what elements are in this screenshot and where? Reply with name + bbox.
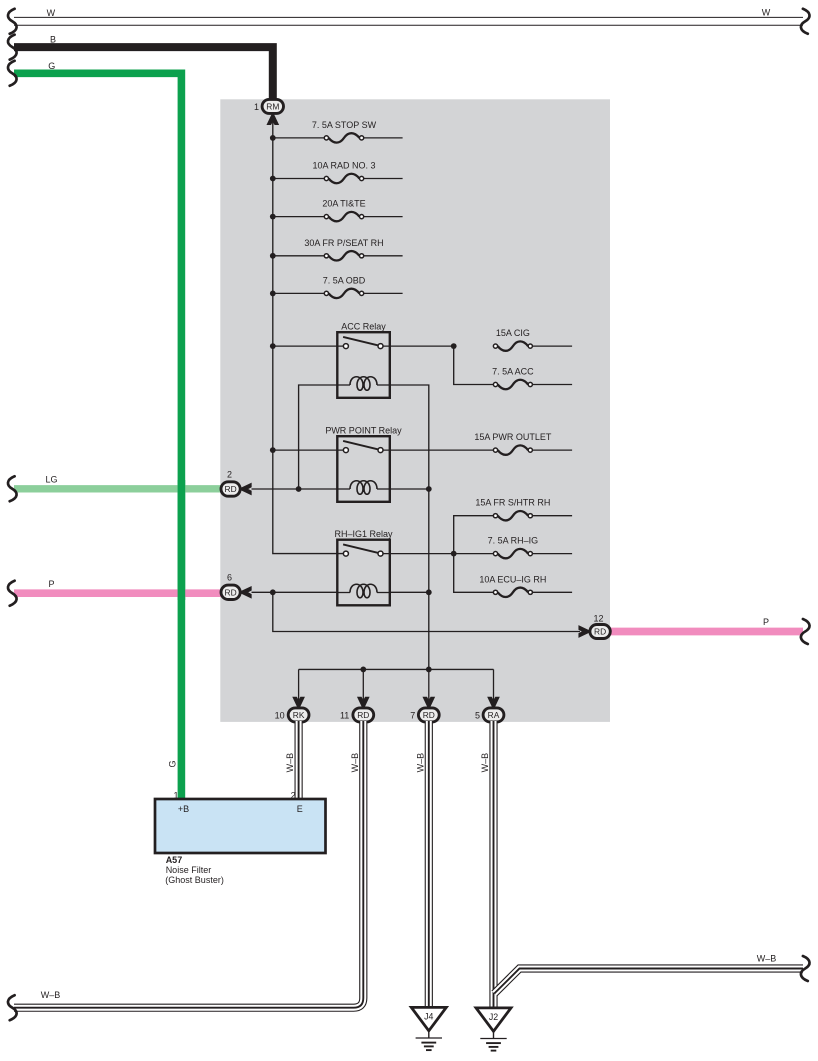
break symbol right of wire W-B bbox=[801, 956, 810, 981]
svg-text:11: 11 bbox=[340, 710, 349, 720]
svg-text:5: 5 bbox=[475, 710, 480, 720]
svg-text:RD: RD bbox=[225, 484, 237, 494]
arrow into connector 10 bbox=[294, 698, 304, 709]
svg-text:W–B: W–B bbox=[41, 990, 61, 1000]
ground J2 bbox=[476, 1008, 511, 1031]
junction dot output bus at feeder bbox=[426, 667, 432, 673]
wire G crossing over LG and P bbox=[178, 480, 186, 600]
svg-text:RD: RD bbox=[225, 587, 237, 597]
ground J4 bbox=[411, 1007, 446, 1030]
svg-text:Noise Filter: Noise Filter bbox=[166, 865, 212, 875]
svg-text:G: G bbox=[168, 760, 178, 767]
connector 10 RK bbox=[288, 708, 309, 722]
svg-text:W–B: W–B bbox=[757, 954, 777, 964]
svg-text:10A RAD NO. 3: 10A RAD NO. 3 bbox=[312, 161, 375, 171]
noise filter A57 box bbox=[155, 799, 326, 853]
svg-text:10A ECU–IG RH: 10A ECU–IG RH bbox=[479, 574, 546, 584]
wire: connector 2 row to PWR POINT coil bbox=[252, 488, 338, 490]
wire W (white, top horizontal) bbox=[14, 17, 803, 26]
svg-text:6: 6 bbox=[227, 573, 232, 583]
svg-text:W: W bbox=[47, 8, 56, 18]
arrow into connector 1 bbox=[268, 114, 278, 125]
wire: drop to connector 5 bbox=[493, 669, 495, 700]
wire: main bus from connector 1 down, turns into RH-IG1 relay switch bbox=[273, 117, 346, 554]
svg-text:30A FR P/SEAT RH: 30A FR P/SEAT RH bbox=[304, 238, 383, 248]
break symbol left of bottom wire W-B bbox=[8, 995, 17, 1020]
junction dot feeder at connector 11 drop bbox=[360, 667, 366, 673]
svg-text:2: 2 bbox=[227, 469, 232, 479]
svg-text:PWR POINT Relay: PWR POINT Relay bbox=[325, 425, 402, 435]
wire W-B from connector 10 to noise filter pin 2 bbox=[295, 721, 303, 800]
svg-text:7. 5A RH–IG: 7. 5A RH–IG bbox=[488, 536, 539, 546]
junction dot right column at ACC switch row bbox=[451, 343, 457, 349]
svg-text:12: 12 bbox=[593, 614, 603, 624]
wire: right fuse column 15A CIG / 7.5A ACC bbox=[454, 346, 494, 384]
svg-text:E: E bbox=[297, 804, 303, 814]
junction dot bus branch at connector 6 row bbox=[270, 589, 276, 595]
connector 11 RD bbox=[353, 708, 374, 722]
svg-text:G: G bbox=[48, 61, 55, 71]
svg-text:W–B: W–B bbox=[350, 753, 360, 773]
svg-text:10: 10 bbox=[275, 710, 285, 720]
break symbol left of wire G bbox=[8, 61, 17, 86]
wire W-B branch from connector 5 wire to right edge bbox=[494, 969, 803, 994]
svg-text:A57: A57 bbox=[166, 855, 183, 865]
arrow into connector 7 bbox=[424, 698, 434, 709]
svg-text:ACC Relay: ACC Relay bbox=[341, 321, 386, 331]
svg-text:7. 5A OBD: 7. 5A OBD bbox=[323, 275, 366, 285]
svg-text:J4: J4 bbox=[424, 1012, 433, 1022]
junction dot bus / PWR POINT switch bbox=[270, 447, 276, 453]
wire: ACC relay switch row from bus bbox=[273, 345, 346, 347]
wire: RH-IG1 relay switch output to junction bbox=[381, 553, 454, 555]
svg-text:15A PWR OUTLET: 15A PWR OUTLET bbox=[474, 432, 552, 442]
break symbol left of wire LG bbox=[8, 476, 17, 501]
svg-text:W–B: W–B bbox=[480, 753, 490, 773]
svg-text:20A TI&TE: 20A TI&TE bbox=[322, 199, 365, 209]
svg-text:7: 7 bbox=[410, 710, 415, 720]
connector 1 RM bbox=[262, 99, 283, 113]
break symbol left of wire W bbox=[8, 9, 17, 34]
svg-text:RD: RD bbox=[357, 710, 369, 720]
svg-text:RD: RD bbox=[594, 627, 606, 637]
wire B (black, thick, to connector 1) bbox=[14, 47, 273, 100]
svg-text:P: P bbox=[48, 579, 54, 589]
junction dot right column at RH-IG1 switch row bbox=[451, 551, 457, 557]
connector 12 RD bbox=[590, 625, 610, 639]
svg-text:1: 1 bbox=[173, 790, 178, 800]
svg-text:P: P bbox=[763, 617, 769, 627]
svg-text:LG: LG bbox=[45, 475, 57, 485]
wire: right fuse column 15A FR S/HTR RH to 10A ECU-IG RH bbox=[454, 516, 494, 593]
arrow into connector 11 bbox=[358, 698, 368, 709]
svg-text:+B: +B bbox=[178, 804, 189, 814]
wire P (pink, from connector 12 to right edge) bbox=[606, 628, 803, 636]
wire: ACC relay switch output to 15A CIG junction bbox=[381, 345, 454, 347]
svg-text:7. 5A ACC: 7. 5A ACC bbox=[492, 367, 534, 377]
wire: drop to connector 10 bbox=[298, 669, 300, 700]
svg-text:W: W bbox=[762, 7, 771, 17]
junction dot output bus at connector 2 row bbox=[426, 486, 432, 492]
svg-text:W–B: W–B bbox=[285, 753, 295, 773]
wire: connector 6 row to RH-IG1 coil bbox=[252, 591, 338, 593]
wire: PWR POINT relay switch row from bus bbox=[273, 449, 346, 451]
wire LG (light green, to connector 2) bbox=[14, 485, 222, 492]
wire: output feeder line to bottom connectors bbox=[299, 668, 494, 670]
svg-text:RD: RD bbox=[423, 710, 435, 720]
svg-text:RA: RA bbox=[488, 710, 500, 720]
break symbol right of wire P bbox=[801, 619, 810, 644]
wire W-B from connector 7 to ground J4 bbox=[425, 721, 433, 1008]
wire: drop to connector 7 bbox=[428, 669, 430, 700]
connector 7 RD bbox=[418, 708, 439, 722]
arrow into connector 12 bbox=[579, 627, 590, 637]
svg-text:J2: J2 bbox=[489, 1012, 498, 1022]
wire: PWR POINT relay switch output to 15A PWR OUTLET fuse bbox=[381, 449, 494, 451]
junction dot output bus at connector 6 row bbox=[426, 589, 432, 595]
svg-text:B: B bbox=[50, 35, 56, 45]
wire G (green, thick, to noise filter +B) bbox=[14, 73, 181, 800]
wire: branch from connector 6 row down and right to connector 12 bbox=[273, 592, 580, 631]
break symbol left of wire B bbox=[8, 35, 17, 60]
svg-text:1: 1 bbox=[254, 102, 259, 112]
arrow into connector 5 bbox=[489, 698, 499, 709]
wire: ACC relay coil right lead to output bus bbox=[390, 385, 429, 669]
junction block panel (gray) bbox=[220, 99, 610, 722]
svg-text:RM: RM bbox=[266, 102, 279, 112]
break symbol left of wire P bbox=[8, 581, 17, 606]
wire W-B from connector 5 to ground J2 bbox=[489, 721, 497, 1009]
junction dot bus / ACC switch bbox=[270, 343, 276, 349]
svg-text:7. 5A STOP SW: 7. 5A STOP SW bbox=[312, 120, 377, 130]
svg-text:RK: RK bbox=[293, 710, 305, 720]
svg-text:RH–IG1 Relay: RH–IG1 Relay bbox=[334, 529, 393, 539]
wire: RH-IG1 coil right lead to output bus bbox=[390, 591, 429, 593]
svg-text:15A CIG: 15A CIG bbox=[496, 328, 530, 338]
wire: PWR POINT coil right lead to output bus bbox=[390, 488, 429, 490]
junction dots on main bus at fuse rows bbox=[270, 135, 276, 141]
wire: ACC relay coil left lead and drop to connector 2 row bbox=[299, 385, 338, 489]
svg-text:2: 2 bbox=[291, 790, 296, 800]
wire P (pink, to connector 6) bbox=[14, 589, 222, 597]
break symbol right of wire W bbox=[801, 9, 810, 34]
arrow into connector 6 bbox=[240, 587, 251, 597]
svg-text:15A FR S/HTR RH: 15A FR S/HTR RH bbox=[475, 498, 550, 508]
junction dot ACC coil drop at connector 2 row bbox=[296, 486, 302, 492]
connector 5 RA bbox=[483, 708, 504, 722]
connector 2 RD bbox=[221, 482, 240, 496]
svg-text:W–B: W–B bbox=[415, 753, 425, 773]
connector 6 RD bbox=[221, 585, 240, 599]
arrow into connector 2 bbox=[240, 484, 251, 494]
svg-text:(Ghost Buster): (Ghost Buster) bbox=[165, 875, 224, 885]
wire: drop to connector 11 bbox=[362, 669, 364, 700]
wire W-B from connector 11 to left edge bbox=[14, 721, 363, 1008]
